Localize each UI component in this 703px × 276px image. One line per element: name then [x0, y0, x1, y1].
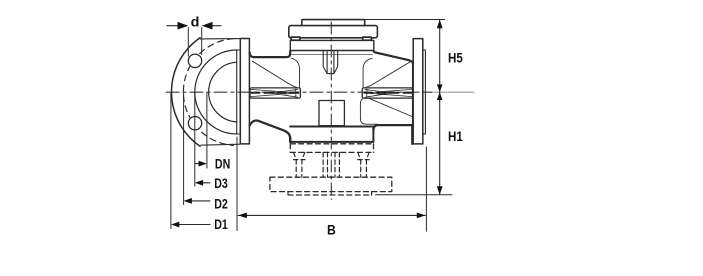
left tube bore centerline (thick dashes)	[252, 92, 299, 94]
centerline fading right extension	[431, 91, 474, 93]
bottom box (solid)	[290, 127, 373, 142]
D1 extension line	[170, 92, 172, 228]
central plug	[319, 101, 344, 126]
bonnet dome plate	[290, 40, 374, 50]
svg-text:B: B	[327, 222, 336, 237]
end view: top break line	[200, 38, 240, 40]
hidden actuator flange (dashed) top line	[290, 143, 373, 145]
D2 extension line	[183, 92, 185, 204]
H dimension line	[439, 21, 441, 195]
bolt hole upper	[188, 54, 201, 67]
right shoulder slope (thick)	[374, 51, 413, 64]
bonnet top plate	[302, 20, 365, 26]
horizontal main centerline	[166, 91, 431, 93]
right raised face	[423, 50, 426, 134]
end view: raised face circle D3 arc	[195, 50, 237, 134]
H top arrow	[437, 20, 443, 29]
svg-text:H5: H5	[448, 51, 463, 66]
d dimension extension line left	[187, 28, 189, 57]
flange bottom raised-face ticks	[237, 133, 426, 135]
right seat nozzle wall	[363, 58, 372, 87]
right flange plate	[413, 39, 423, 144]
hidden base plate (dashed)	[270, 177, 392, 191]
H1 bottom extension line	[376, 194, 452, 196]
right tube bore centerline (thick dashes)	[365, 92, 412, 94]
left flange plate	[240, 39, 249, 144]
B dimension line with arrows	[238, 214, 425, 216]
D3 extension line	[194, 92, 196, 186]
bonnet middle plate	[289, 26, 378, 38]
hidden bolt right (dashed)	[358, 152, 369, 177]
right cavity pocket	[360, 98, 377, 124]
bolt hole lower	[188, 117, 201, 130]
right seat tube	[362, 88, 412, 98]
left seat cone lines	[251, 89, 298, 97]
left upper funnel slant	[252, 61, 296, 87]
end view: bolt circle D2 dashed arc	[183, 39, 233, 146]
DN extension line	[206, 92, 208, 168]
left seat nozzle wall	[291, 58, 300, 87]
D3 leader arrow	[195, 180, 210, 186]
svg-text:DN: DN	[215, 157, 230, 172]
left shoulder hub (thick)	[250, 51, 291, 58]
DN leader arrow	[195, 161, 207, 167]
svg-text:D1: D1	[214, 217, 228, 232]
D2 leader arrow	[184, 198, 210, 204]
B right extension line	[425, 147, 427, 231]
svg-text:D3: D3	[214, 176, 228, 191]
left raised face	[237, 50, 241, 134]
D1 leader arrow	[171, 222, 210, 228]
B left extension line	[236, 137, 238, 231]
right lower funnel slant	[369, 98, 412, 116]
end view: outer flange circle D1 arc	[172, 38, 200, 147]
clamp right	[363, 37, 372, 40]
centerline tick at right flange	[425, 91, 432, 93]
H bottom arrow	[437, 186, 443, 195]
body lower-right outline (thick)	[373, 125, 412, 144]
hidden flange sides and bottom (dashed)	[290, 144, 373, 153]
right seat cone lines	[365, 89, 412, 97]
svg-text:H1: H1	[448, 129, 463, 144]
right flange inner face line	[411, 62, 413, 144]
end view: bore circle DN arc	[209, 62, 237, 122]
d dimension right arrow	[202, 22, 221, 30]
svg-text:d: d	[191, 14, 200, 29]
hidden center column (dashed)	[323, 152, 339, 177]
svg-text:D2: D2	[214, 197, 228, 212]
right upper funnel slant	[366, 62, 411, 88]
dome inner line	[292, 54, 373, 56]
hidden bolt left (dashed)	[294, 152, 305, 177]
d dimension extension line right	[201, 28, 203, 55]
H dimension top extension line	[365, 19, 445, 21]
d dimension left arrow	[167, 22, 188, 30]
clamp left	[291, 37, 300, 40]
body lower-left outline (thick)	[250, 121, 291, 142]
left seat tube	[250, 88, 300, 98]
H center arrows	[437, 84, 443, 100]
vertical stem centerline	[330, 22, 332, 200]
hidden bottom strip (dashed)	[288, 192, 372, 195]
stem	[323, 51, 338, 74]
end view: bottom break line	[201, 144, 241, 145]
